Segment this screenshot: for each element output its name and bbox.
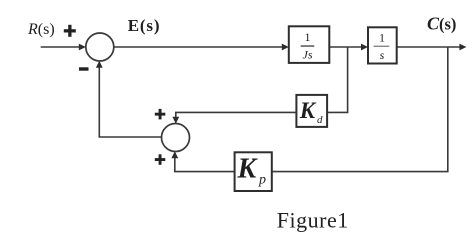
svg-text:1: 1 (305, 30, 311, 44)
svg-text:R(s): R(s) (27, 21, 55, 38)
svg-text:p: p (258, 173, 266, 188)
svg-text:d: d (317, 114, 323, 126)
svg-text:1: 1 (379, 31, 385, 45)
svg-text:Figure1: Figure1 (277, 208, 349, 233)
svg-text:C(s): C(s) (427, 14, 456, 34)
svg-text:K: K (299, 98, 317, 123)
svg-text:K: K (237, 154, 259, 185)
svg-text:s: s (380, 48, 385, 62)
svg-text:E(s): E(s) (128, 16, 160, 35)
svg-text:Js: Js (303, 48, 313, 62)
